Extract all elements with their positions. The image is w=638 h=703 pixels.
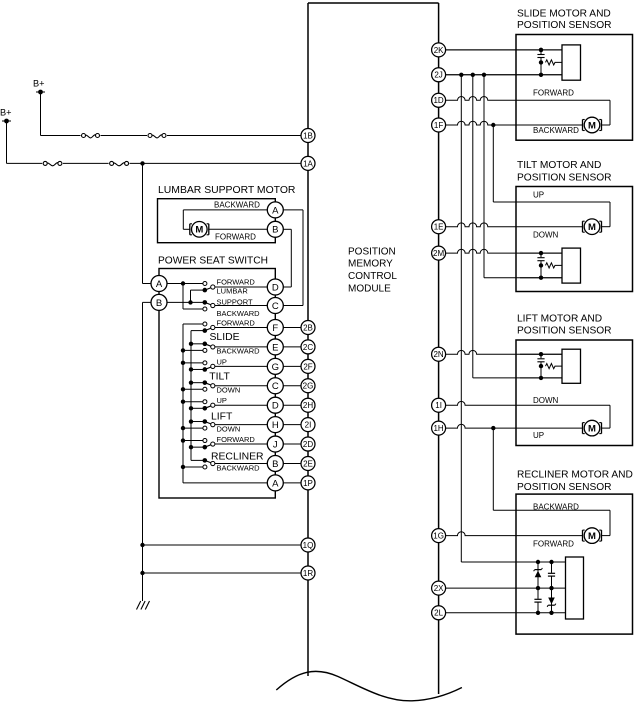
svg-text:SLIDE: SLIDE <box>210 332 240 343</box>
svg-text:POSITION SENSOR: POSITION SENSOR <box>517 482 612 493</box>
svg-text:2F: 2F <box>303 362 312 371</box>
svg-text:2J: 2J <box>434 71 442 80</box>
svg-text:2X: 2X <box>434 584 444 593</box>
svg-text:A: A <box>156 279 163 290</box>
svg-text:1D: 1D <box>433 96 443 105</box>
svg-text:BACKWARD: BACKWARD <box>533 126 579 135</box>
svg-text:LIFT MOTOR AND: LIFT MOTOR AND <box>517 313 602 324</box>
svg-text:1A: 1A <box>303 159 313 168</box>
svg-text:BACKWARD: BACKWARD <box>533 502 579 511</box>
svg-text:2E: 2E <box>303 459 313 468</box>
svg-text:DOWN: DOWN <box>217 386 241 395</box>
svg-text:B: B <box>156 298 162 309</box>
svg-text:LUMBAR: LUMBAR <box>217 287 249 296</box>
svg-text:UP: UP <box>533 431 544 440</box>
svg-text:BACKWARD: BACKWARD <box>214 201 260 210</box>
svg-text:2M: 2M <box>433 249 444 258</box>
svg-text:2H: 2H <box>303 401 313 410</box>
svg-text:POSITION SENSOR: POSITION SENSOR <box>517 20 612 31</box>
svg-text:1B: 1B <box>303 131 313 140</box>
svg-text:DOWN: DOWN <box>533 230 559 239</box>
svg-text:2N: 2N <box>433 350 443 359</box>
svg-text:POSITION: POSITION <box>348 246 396 257</box>
svg-text:2D: 2D <box>303 440 313 449</box>
svg-text:POSITION SENSOR: POSITION SENSOR <box>517 326 612 337</box>
svg-text:FORWARD: FORWARD <box>217 278 256 287</box>
svg-text:D: D <box>272 401 279 412</box>
svg-text:FORWARD: FORWARD <box>533 89 574 98</box>
svg-text:SLIDE MOTOR AND: SLIDE MOTOR AND <box>517 8 611 19</box>
svg-text:1F: 1F <box>434 121 443 130</box>
svg-text:A: A <box>272 478 279 489</box>
svg-text:POSITION SENSOR: POSITION SENSOR <box>517 172 612 183</box>
svg-text:RECLINER MOTOR AND: RECLINER MOTOR AND <box>517 469 633 480</box>
svg-text:1I: 1I <box>435 401 442 410</box>
svg-text:1Q: 1Q <box>303 541 314 550</box>
svg-text:TILT: TILT <box>209 371 230 382</box>
svg-text:1H: 1H <box>433 424 443 433</box>
svg-text:2L: 2L <box>434 609 443 618</box>
svg-text:C: C <box>272 381 279 392</box>
svg-text:UP: UP <box>217 396 227 405</box>
svg-text:B: B <box>272 459 278 470</box>
svg-text:MEMORY: MEMORY <box>348 259 393 270</box>
svg-text:LUMBAR SUPPORT MOTOR: LUMBAR SUPPORT MOTOR <box>158 185 296 196</box>
svg-text:B: B <box>272 225 278 236</box>
svg-text:1E: 1E <box>434 223 444 232</box>
svg-text:G: G <box>272 362 279 373</box>
svg-text:M: M <box>588 120 596 131</box>
svg-text:E: E <box>272 342 278 353</box>
svg-text:TILT MOTOR AND: TILT MOTOR AND <box>517 160 601 171</box>
svg-text:M: M <box>588 531 596 542</box>
svg-text:1G: 1G <box>433 532 444 541</box>
svg-text:F: F <box>272 323 278 334</box>
svg-text:LIFT: LIFT <box>211 412 233 423</box>
svg-text:DOWN: DOWN <box>533 396 559 405</box>
svg-text:M: M <box>588 222 596 233</box>
svg-text:FORWARD: FORWARD <box>215 233 256 242</box>
svg-text:2G: 2G <box>303 382 314 391</box>
svg-text:FORWARD: FORWARD <box>217 435 256 444</box>
svg-text:B+: B+ <box>33 79 45 89</box>
svg-text:1R: 1R <box>303 569 313 578</box>
svg-text:D: D <box>272 282 279 293</box>
svg-text:2C: 2C <box>303 343 313 352</box>
svg-text:MODULE: MODULE <box>348 284 391 295</box>
svg-text:DOWN: DOWN <box>217 424 241 433</box>
svg-text:RECLINER: RECLINER <box>211 451 264 462</box>
svg-text:M: M <box>588 424 596 435</box>
svg-text:UP: UP <box>217 357 227 366</box>
svg-text:BACKWARD: BACKWARD <box>217 309 261 318</box>
svg-text:A: A <box>272 205 279 216</box>
svg-text:M: M <box>195 225 203 236</box>
svg-text:CONTROL: CONTROL <box>348 271 397 282</box>
svg-text:SUPPORT: SUPPORT <box>217 297 254 306</box>
svg-text:1P: 1P <box>303 479 313 488</box>
svg-text:2I: 2I <box>305 421 312 430</box>
svg-text:BACKWARD: BACKWARD <box>217 347 261 356</box>
svg-text:FORWARD: FORWARD <box>217 319 256 328</box>
svg-text:C: C <box>272 301 279 312</box>
svg-text:H: H <box>272 420 279 431</box>
svg-text:POWER SEAT SWITCH: POWER SEAT SWITCH <box>158 256 268 267</box>
svg-text:2B: 2B <box>303 323 313 332</box>
svg-text:FORWARD: FORWARD <box>533 539 574 548</box>
svg-text:J: J <box>273 439 278 450</box>
svg-text:2K: 2K <box>434 46 444 55</box>
svg-text:UP: UP <box>533 191 544 200</box>
svg-text:BACKWARD: BACKWARD <box>217 463 261 472</box>
svg-text:B+: B+ <box>0 108 12 118</box>
